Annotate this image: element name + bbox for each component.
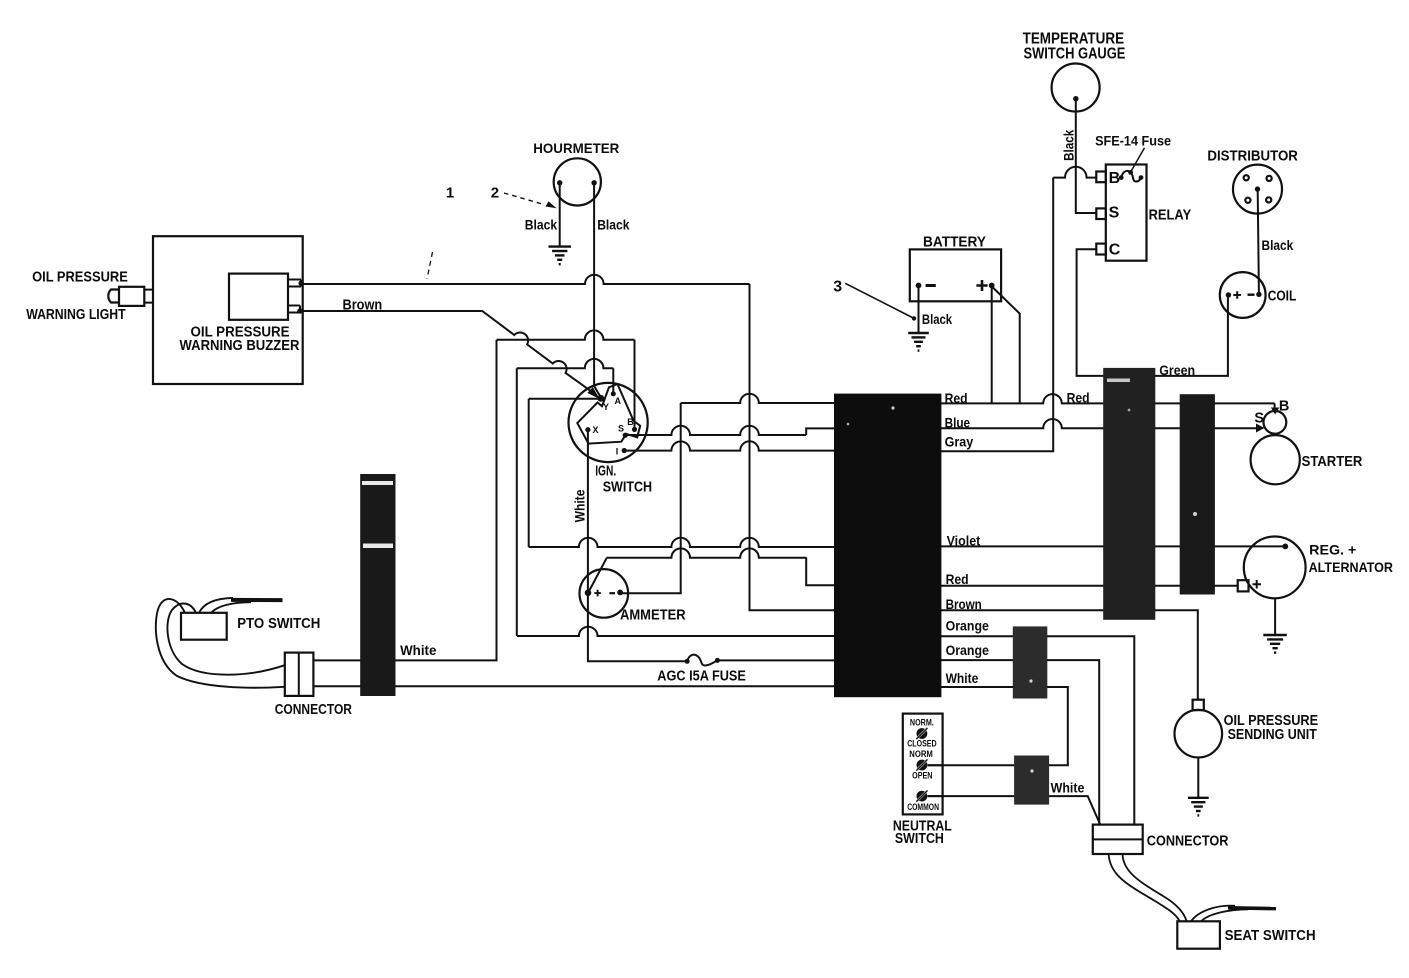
svg-text:ALTERNATOR: ALTERNATOR <box>1309 559 1393 575</box>
svg-text:CONNECTOR: CONNECTOR <box>1147 834 1229 850</box>
svg-text:Red: Red <box>945 390 968 406</box>
svg-text:Black: Black <box>1262 237 1294 253</box>
svg-text:REG. +: REG. + <box>1309 542 1356 558</box>
svg-text:CONNECTOR: CONNECTOR <box>275 702 353 718</box>
svg-text:Orange: Orange <box>946 642 989 658</box>
svg-text:SFE-14 Fuse: SFE-14 Fuse <box>1095 132 1171 148</box>
svg-text:AMMETER: AMMETER <box>620 608 686 624</box>
svg-text:X: X <box>593 425 599 435</box>
svg-text:White: White <box>400 642 436 658</box>
svg-text:WARNING BUZZER: WARNING BUZZER <box>180 338 300 354</box>
svg-text:White: White <box>573 489 588 522</box>
svg-text:BATTERY: BATTERY <box>923 234 986 250</box>
svg-text:Black: Black <box>1060 130 1076 161</box>
svg-text:COMMON: COMMON <box>907 802 939 812</box>
svg-text:WARNING LIGHT: WARNING LIGHT <box>26 307 126 323</box>
svg-text:A: A <box>615 396 622 406</box>
svg-text:RELAY: RELAY <box>1149 207 1192 223</box>
svg-text:S: S <box>1109 204 1120 221</box>
svg-text:Red: Red <box>1067 389 1090 405</box>
svg-text:B: B <box>627 417 634 427</box>
svg-text:HOURMETER: HOURMETER <box>533 140 619 156</box>
svg-text:SWITCH: SWITCH <box>895 831 944 847</box>
svg-text:3: 3 <box>833 278 842 295</box>
svg-text:SENDING UNIT: SENDING UNIT <box>1228 727 1317 743</box>
svg-text:Blue: Blue <box>945 414 971 430</box>
svg-text:Red: Red <box>946 571 969 587</box>
svg-text:Black: Black <box>597 217 629 233</box>
svg-text:SWITCH: SWITCH <box>603 479 652 496</box>
svg-text:COIL: COIL <box>1268 289 1297 305</box>
svg-text:Black: Black <box>525 217 557 233</box>
svg-text:Y: Y <box>603 402 609 412</box>
svg-text:SWITCH GAUGE: SWITCH GAUGE <box>1024 45 1126 62</box>
svg-text:Gray: Gray <box>945 434 974 450</box>
svg-text:C: C <box>1109 241 1121 258</box>
svg-text:I: I <box>616 447 619 457</box>
svg-text:NORM: NORM <box>909 749 933 759</box>
svg-text:White: White <box>946 670 979 686</box>
svg-text:PTO SWITCH: PTO SWITCH <box>237 616 320 632</box>
svg-text:DISTRIBUTOR: DISTRIBUTOR <box>1207 148 1298 164</box>
svg-text:White: White <box>1051 780 1085 796</box>
svg-text:1: 1 <box>446 184 454 201</box>
svg-text:Brown: Brown <box>946 596 982 612</box>
svg-text:B: B <box>1279 398 1289 414</box>
svg-text:OIL PRESSURE: OIL PRESSURE <box>32 270 128 286</box>
svg-text:Black: Black <box>922 312 953 327</box>
svg-text:Brown: Brown <box>343 298 383 314</box>
svg-text:2: 2 <box>491 184 499 201</box>
svg-text:AGC I5A FUSE: AGC I5A FUSE <box>657 669 746 685</box>
svg-text:IGN.: IGN. <box>595 463 616 480</box>
svg-text:S: S <box>1254 410 1264 426</box>
svg-text:STARTER: STARTER <box>1302 453 1363 470</box>
svg-text:Green: Green <box>1159 362 1195 378</box>
svg-text:Violet: Violet <box>947 533 981 549</box>
svg-text:S: S <box>618 424 624 434</box>
svg-text:NORM.: NORM. <box>910 717 934 727</box>
svg-text:SEAT SWITCH: SEAT SWITCH <box>1225 928 1316 944</box>
svg-text:OPEN: OPEN <box>912 770 932 780</box>
svg-text:CLOSED: CLOSED <box>907 739 937 749</box>
svg-text:B: B <box>1109 170 1121 187</box>
svg-text:Orange: Orange <box>946 618 989 634</box>
